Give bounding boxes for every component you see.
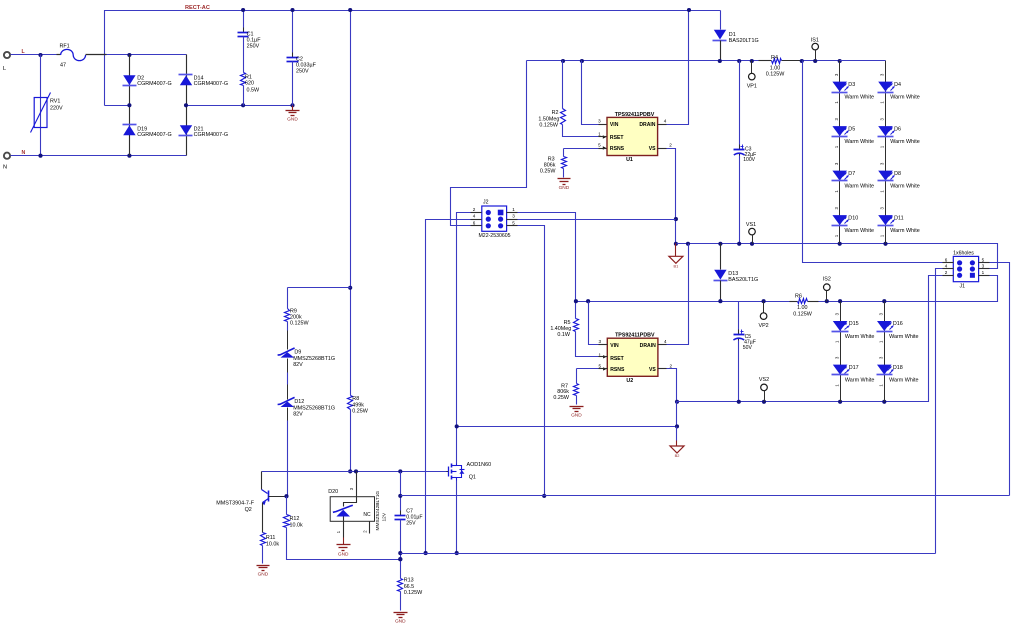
resistor R7 <box>576 369 578 384</box>
wire U2 VS to Q1 drain <box>676 402 678 427</box>
svg-text:D9: D9 <box>294 350 301 356</box>
svg-text:Warm White: Warm White <box>845 334 874 340</box>
svg-text:Warm White: Warm White <box>845 377 874 383</box>
wire J1 pin6 to VP1 rail <box>803 61 943 263</box>
svg-text:VS: VS <box>649 367 656 373</box>
LED D8 <box>878 171 893 181</box>
svg-text:L: L <box>3 66 6 72</box>
wire J1 pin stubs <box>943 262 954 264</box>
wire D20 pin2 stub <box>369 522 371 534</box>
wire J2 pin6 to VP1 rail <box>451 61 527 226</box>
svg-text:12V: 12V <box>382 512 388 521</box>
svg-text:0.125W: 0.125W <box>539 122 558 128</box>
svg-text:1x6holes: 1x6holes <box>953 251 974 257</box>
capacitor C5 <box>738 302 740 335</box>
LED D4 <box>878 82 893 92</box>
svg-text:C2: C2 <box>296 56 303 62</box>
resistor R12 <box>286 497 288 515</box>
wire VS1 rail (LED string1 bottom) <box>677 244 998 269</box>
svg-text:TPS92411PDBV: TPS92411PDBV <box>615 112 655 118</box>
svg-text:CGRM4007-G: CGRM4007-G <box>137 132 171 138</box>
svg-text:RV1: RV1 <box>50 98 60 104</box>
net flag B2 <box>676 427 678 441</box>
wire J2 pin stubs <box>471 212 482 214</box>
svg-text:M22-2530605: M22-2530605 <box>478 233 510 239</box>
svg-text:GND: GND <box>258 572 269 578</box>
svg-text:5: 5 <box>512 220 515 225</box>
terminal L <box>4 52 10 58</box>
svg-text:620: 620 <box>245 81 254 87</box>
testpoint VP1 <box>751 61 753 74</box>
LED D17 <box>833 365 848 375</box>
svg-text:0.5W: 0.5W <box>247 88 260 94</box>
wire RSNS U1 <box>564 148 599 150</box>
svg-text:1.40Meg: 1.40Meg <box>550 326 571 332</box>
wire N to bridge <box>11 155 187 157</box>
resistor R1 <box>241 73 246 86</box>
svg-text:0.125W: 0.125W <box>404 590 423 596</box>
ground R13 GND <box>394 612 408 614</box>
svg-text:2: 2 <box>669 143 672 148</box>
capacitor C2 <box>292 11 294 58</box>
wire RECT-AC top bus <box>105 11 721 106</box>
testpoint VP2 <box>763 302 765 313</box>
svg-text:R11: R11 <box>266 535 276 541</box>
wire VP2 rail <box>576 301 790 303</box>
wire VS U1 down <box>667 149 676 244</box>
svg-text:10.0k: 10.0k <box>290 522 303 528</box>
svg-text:D15: D15 <box>849 321 859 327</box>
svg-text:Warm White: Warm White <box>845 183 874 189</box>
LED D6 <box>878 126 893 136</box>
capacitor C7 <box>400 472 402 516</box>
ground R3 GND <box>558 178 571 180</box>
svg-text:D17: D17 <box>849 365 859 371</box>
connector J2 M22-2530605 <box>482 206 507 231</box>
resistor R13 <box>398 579 403 592</box>
ground R11 GND <box>257 565 270 567</box>
wire LED string2 column2 <box>884 302 886 402</box>
wire VP1 rail <box>527 60 759 62</box>
svg-text:Warm White: Warm White <box>890 139 919 145</box>
diode D21 <box>180 125 192 135</box>
wire gate line <box>262 471 447 473</box>
svg-text:R4: R4 <box>771 55 778 61</box>
LED D3 <box>832 82 847 92</box>
ground rectifier GND <box>292 106 294 111</box>
resistor R5 <box>574 319 579 332</box>
svg-text:1.00: 1.00 <box>770 65 781 71</box>
wire J2 pin2 to Q1 drain <box>457 213 471 464</box>
LED D11 <box>878 215 893 225</box>
svg-text:VS2: VS2 <box>759 377 769 383</box>
svg-text:DRAIN: DRAIN <box>639 122 655 128</box>
wire D20 pin1 to GND <box>343 517 345 538</box>
svg-text:Warm White: Warm White <box>890 183 919 189</box>
diode D2 <box>123 75 135 85</box>
svg-text:D1: D1 <box>729 32 736 38</box>
wire VIN U2 from rail <box>589 302 599 345</box>
svg-text:RSNS: RSNS <box>610 367 625 373</box>
svg-text:D20: D20 <box>328 489 338 495</box>
wire DRAIN U1 to RECT-AC <box>667 11 689 125</box>
wire bridge negative GND rail <box>187 105 293 107</box>
svg-text:R6: R6 <box>795 294 802 300</box>
zener D9 <box>281 352 295 358</box>
svg-text:0.25W: 0.25W <box>553 395 569 401</box>
svg-text:GND: GND <box>571 413 582 419</box>
svg-text:1: 1 <box>982 270 985 275</box>
svg-text:4: 4 <box>664 339 667 344</box>
svg-text:B2: B2 <box>675 453 680 458</box>
wire LED string2 column1 <box>840 302 842 402</box>
wire fuse to bridge <box>107 54 187 56</box>
svg-text:499k: 499k <box>352 402 364 408</box>
svg-text:3: 3 <box>598 339 601 344</box>
svg-text:TPS92411PDBV: TPS92411PDBV <box>615 333 655 339</box>
diode D13 <box>720 244 722 270</box>
svg-text:2: 2 <box>945 270 948 275</box>
svg-text:82V: 82V <box>293 362 303 368</box>
svg-text:D4: D4 <box>894 82 901 88</box>
svg-text:D12: D12 <box>294 399 304 405</box>
svg-text:Q2: Q2 <box>245 507 252 513</box>
svg-text:R5: R5 <box>564 320 571 326</box>
LED D18 <box>877 365 892 375</box>
svg-text:82V: 82V <box>293 412 303 418</box>
svg-text:66.5: 66.5 <box>404 584 415 590</box>
svg-text:Warm White: Warm White <box>845 139 874 145</box>
svg-text:VP1: VP1 <box>747 83 757 89</box>
wire J2 pin1 to VP2 rail / U2 RSET <box>518 213 576 319</box>
svg-text:Warm White: Warm White <box>890 228 919 234</box>
resistor R3 <box>563 149 565 157</box>
svg-text:50V: 50V <box>743 345 753 351</box>
svg-text:D7: D7 <box>848 171 855 177</box>
svg-text:GND: GND <box>559 185 570 191</box>
svg-text:MMSZ5268BT1G: MMSZ5268BT1G <box>293 356 335 362</box>
svg-text:BAS20LT1G: BAS20LT1G <box>729 38 759 44</box>
svg-text:B1: B1 <box>674 264 679 269</box>
svg-text:BAS20LT1G: BAS20LT1G <box>728 277 758 283</box>
op-amp U2 TPS92411PDBV <box>607 338 658 376</box>
net flag B1 <box>675 244 677 257</box>
svg-text:5: 5 <box>982 258 985 263</box>
svg-text:3: 3 <box>598 118 601 123</box>
LED D15 <box>833 321 848 331</box>
svg-text:0.25W: 0.25W <box>540 168 556 174</box>
terminal N <box>4 153 10 159</box>
svg-text:100V: 100V <box>743 157 755 163</box>
wire VS U2 down <box>667 369 677 402</box>
svg-text:3: 3 <box>512 214 515 219</box>
LED D7 <box>832 171 847 181</box>
svg-text:0.125W: 0.125W <box>766 72 785 78</box>
svg-text:4: 4 <box>664 118 667 123</box>
svg-text:Q1: Q1 <box>469 474 476 480</box>
resistor R2 <box>562 61 564 109</box>
svg-text:DRAIN: DRAIN <box>640 343 656 349</box>
LED D16 <box>877 321 892 331</box>
svg-text:J2: J2 <box>483 200 489 206</box>
resistor R4 <box>772 59 782 64</box>
svg-text:5: 5 <box>598 363 601 368</box>
svg-text:10.0k: 10.0k <box>266 541 279 547</box>
svg-text:VIN: VIN <box>610 343 619 349</box>
svg-text:VS1: VS1 <box>746 222 756 228</box>
svg-text:VP2: VP2 <box>758 323 768 329</box>
svg-text:D6: D6 <box>894 126 901 132</box>
LED D10 <box>832 215 847 225</box>
svg-text:D18: D18 <box>893 365 903 371</box>
svg-text:250V: 250V <box>247 44 260 50</box>
op-amp U1 TPS92411PDBV <box>607 117 658 155</box>
svg-text:D8: D8 <box>894 171 901 177</box>
capacitor C1 <box>243 11 245 33</box>
wire divider vertical from RECT-AC <box>350 11 352 396</box>
wire J1 pin4 down to source rail <box>936 269 943 554</box>
svg-text:2: 2 <box>670 363 673 368</box>
connector J1 1x6holes <box>953 256 978 281</box>
svg-text:1: 1 <box>512 207 515 212</box>
zener D20 MMSZ5242BLT1G <box>344 472 357 507</box>
svg-text:D3: D3 <box>848 82 855 88</box>
resistor R8 <box>348 396 353 410</box>
svg-text:U2: U2 <box>626 378 633 384</box>
diode D1 <box>720 11 722 30</box>
svg-text:5: 5 <box>598 143 601 148</box>
wire VIN U1 from rail <box>582 61 599 125</box>
svg-text:U1: U1 <box>626 157 633 163</box>
svg-text:2: 2 <box>473 207 476 212</box>
wire RSNS U2 <box>577 368 599 370</box>
wire DRAIN U2 to VS1 rail <box>667 244 689 345</box>
svg-text:CGRM4007-G: CGRM4007-G <box>137 81 171 87</box>
svg-text:1: 1 <box>598 132 601 137</box>
svg-text:0.033µF: 0.033µF <box>296 63 317 69</box>
resistor R11 <box>261 533 266 546</box>
svg-text:220V: 220V <box>50 105 63 111</box>
capacitor C3 <box>739 61 741 150</box>
zener D12 <box>281 402 295 408</box>
svg-text:D10: D10 <box>848 215 858 221</box>
svg-text:1.50Meg: 1.50Meg <box>538 116 559 122</box>
svg-text:47: 47 <box>60 63 66 69</box>
svg-text:25V: 25V <box>406 520 416 526</box>
ground D20 GND <box>343 538 345 545</box>
LED D5 <box>832 126 847 136</box>
wire LED string1 column2 <box>885 61 887 244</box>
wire J2 pin4 down <box>426 220 471 554</box>
svg-text:6: 6 <box>473 220 476 225</box>
svg-text:1.00: 1.00 <box>797 305 808 311</box>
svg-text:4: 4 <box>473 214 476 219</box>
svg-text:0.25W: 0.25W <box>352 409 368 415</box>
svg-text:Warm White: Warm White <box>889 377 918 383</box>
wire Q1 source down <box>456 481 458 554</box>
svg-text:D5: D5 <box>848 126 855 132</box>
svg-text:D13: D13 <box>728 271 738 277</box>
svg-text:250V: 250V <box>296 69 309 75</box>
ground R7 GND <box>570 406 584 408</box>
svg-text:MMST3904-7-F: MMST3904-7-F <box>216 501 254 507</box>
svg-text:IS2: IS2 <box>823 276 831 282</box>
wire U2 pin stubs <box>599 344 608 346</box>
wire zener chain top <box>288 287 351 289</box>
svg-text:R2: R2 <box>552 110 559 116</box>
svg-text:Warm White: Warm White <box>890 94 919 100</box>
wire gate distribution rail <box>401 495 1010 497</box>
varistor RV1 <box>40 55 42 156</box>
resistor R9 <box>287 288 289 309</box>
svg-text:D11: D11 <box>894 215 904 221</box>
svg-text:RSNS: RSNS <box>610 146 625 152</box>
svg-text:0.1µF: 0.1µF <box>247 38 262 44</box>
svg-text:CGRM4007-G: CGRM4007-G <box>194 81 228 87</box>
svg-text:RECT-AC: RECT-AC <box>185 5 210 11</box>
wire bridge positive to RECT-AC <box>105 105 130 107</box>
transistor Q2 MMST3904 <box>261 472 263 490</box>
resistor R6 <box>798 299 808 304</box>
svg-text:N: N <box>3 165 7 171</box>
wire U1 pin stubs <box>599 124 607 126</box>
wire LED string1 column1 <box>839 61 841 244</box>
wire LED string2 bottom rail <box>677 276 943 402</box>
svg-text:VS: VS <box>649 146 656 152</box>
wire J2 pin5 down to gate rail <box>518 226 545 496</box>
svg-text:RSET: RSET <box>610 356 624 362</box>
svg-text:0.125W: 0.125W <box>793 312 812 318</box>
svg-text:J1: J1 <box>960 283 966 289</box>
svg-text:RSET: RSET <box>610 135 624 141</box>
svg-text:GND: GND <box>287 117 298 123</box>
svg-text:MMSZ5242BLT1G: MMSZ5242BLT1G <box>375 491 381 531</box>
wire L to fuse <box>11 54 57 56</box>
svg-text:RF1: RF1 <box>60 44 70 50</box>
svg-text:CGRM4007-G: CGRM4007-G <box>194 132 228 138</box>
svg-text:Warm White: Warm White <box>845 228 874 234</box>
svg-text:6: 6 <box>945 258 948 263</box>
diode D14 <box>179 74 193 76</box>
svg-text:IS1: IS1 <box>811 37 819 43</box>
wire bridge left column <box>129 55 131 156</box>
svg-text:0.125W: 0.125W <box>290 321 309 327</box>
svg-text:GND: GND <box>395 618 406 624</box>
svg-text:VIN: VIN <box>610 122 619 128</box>
wire bridge right column <box>186 55 188 156</box>
svg-text:C1: C1 <box>247 31 254 37</box>
svg-text:D16: D16 <box>893 321 903 327</box>
diode D19 <box>123 124 137 126</box>
svg-text:AOD1N60: AOD1N60 <box>467 462 492 468</box>
svg-text:R13: R13 <box>404 578 414 584</box>
transistor Q1 AOD1N60 <box>447 471 449 473</box>
svg-text:Warm White: Warm White <box>889 334 918 340</box>
svg-text:NC: NC <box>363 512 371 518</box>
wire J2 pin3 to VS1 net <box>518 219 676 221</box>
svg-text:MMSZ5268BT1G: MMSZ5268BT1G <box>293 405 335 411</box>
wire source rail <box>401 553 936 555</box>
svg-text:R12: R12 <box>290 516 300 522</box>
svg-text:Warm White: Warm White <box>845 94 874 100</box>
svg-text:GND: GND <box>338 551 349 557</box>
svg-text:R8: R8 <box>352 396 359 402</box>
svg-text:0.1W: 0.1W <box>557 332 570 338</box>
wire J1 pin5 down to gate rail <box>990 263 1010 496</box>
